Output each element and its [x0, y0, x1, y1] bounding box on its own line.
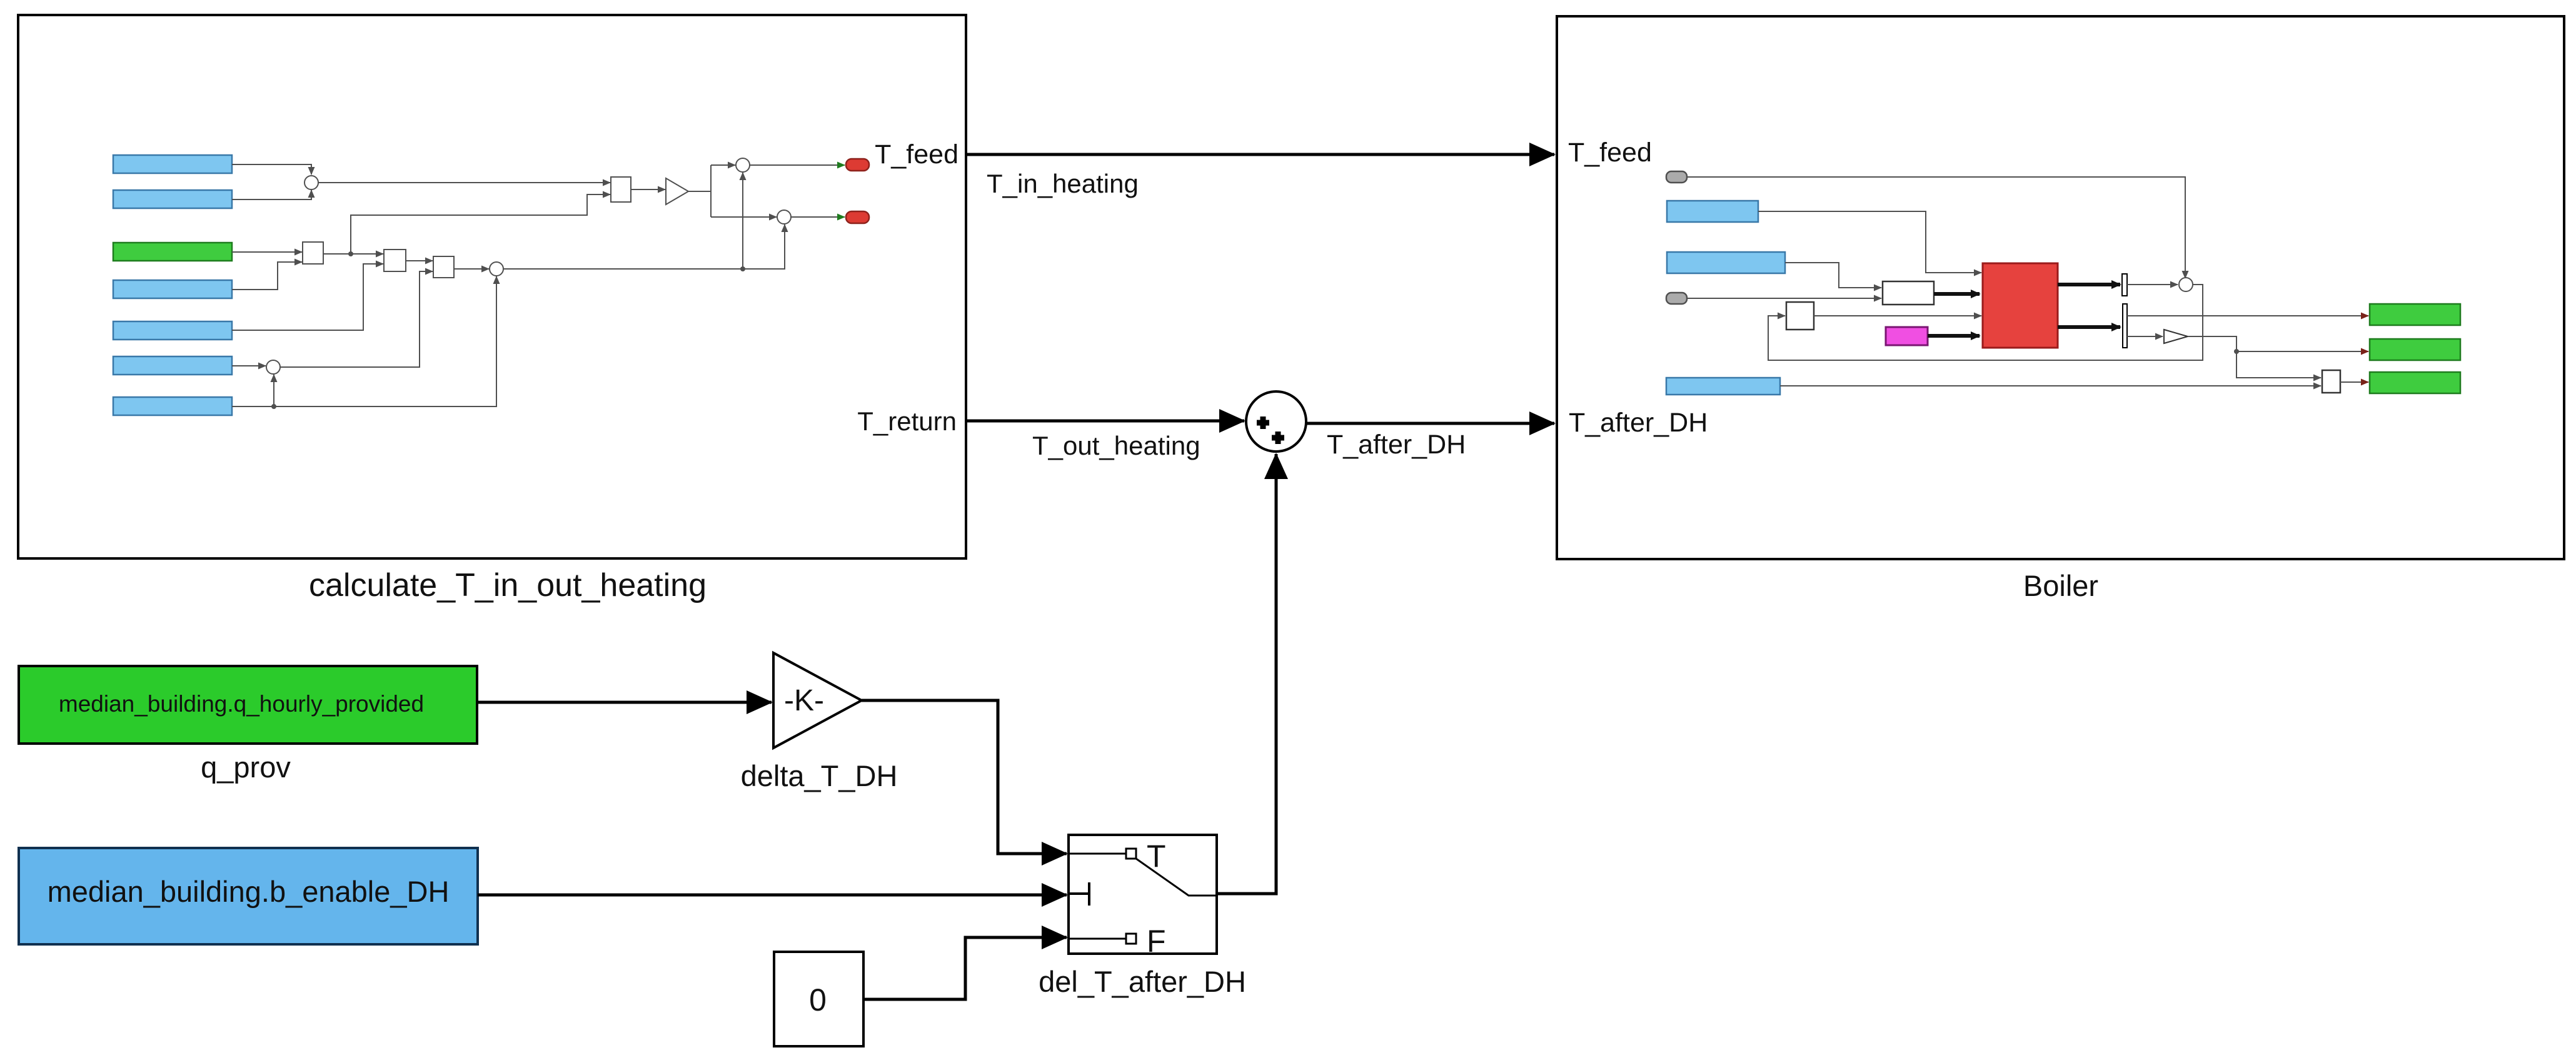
subsystem Boiler — [1557, 16, 2564, 559]
wire box1 to box2 — [323, 253, 383, 255]
svg-text:del_T_after_DH: del_T_after_DH — [1039, 965, 1246, 998]
svg-text:median_building.b_enable_DH: median_building.b_enable_DH — [48, 875, 450, 908]
wire branch In7 to sum3 bottom — [273, 375, 274, 406]
wire vbar2 to green bar 1 — [2127, 315, 2368, 316]
wire In6 to sum3 — [232, 365, 266, 366]
wire barC to box5 bottom input — [1780, 385, 2321, 386]
gain triangle 2 — [2164, 330, 2188, 343]
switch lever — [1136, 859, 1217, 896]
wire sum4 to outport pill1 — [750, 164, 845, 166]
inport bar In3 (green) — [113, 243, 232, 261]
wire feedback sum6 to W2 — [1768, 285, 2203, 360]
wire In3 to box1 — [232, 251, 302, 253]
white box 5 — [2322, 370, 2340, 393]
inport block median_building.b_enable_DH — [19, 848, 478, 944]
svg-text:delta_T_DH: delta_T_DH — [741, 759, 898, 792]
wire constant to switch input3 — [863, 937, 1067, 999]
wire W2 to red block input3 — [1814, 315, 1981, 316]
sum block Add — [1246, 391, 1306, 452]
sum circle 4 — [736, 158, 750, 172]
svg-text:Boiler: Boiler — [2023, 569, 2098, 602]
wire sum2 to sum4 bottom — [503, 173, 743, 269]
white box W1 — [1883, 281, 1934, 305]
wire box4 to gain — [631, 189, 665, 190]
inport bar In6 — [113, 356, 232, 375]
switch del_T_after_DH — [1069, 835, 1217, 954]
switch inner square F — [1126, 934, 1136, 944]
constant 0 — [774, 952, 863, 1046]
vertical bar 2 — [2123, 304, 2127, 348]
sum circle 1 — [304, 176, 318, 189]
inport bar In4 — [113, 280, 232, 298]
svg-text:T_after_DH: T_after_DH — [1569, 408, 1708, 438]
wire b_enable_DH to switch control — [478, 894, 1067, 897]
wire barB to W1 input1 — [1785, 263, 1881, 288]
red block (heat exchanger) — [1983, 263, 2058, 348]
wire to sum4 left — [711, 164, 735, 166]
wire In5 to box2 — [232, 264, 383, 330]
wire gain to switch input1 — [862, 700, 1067, 854]
sum circle 3 — [266, 360, 280, 374]
wire In1 to sum1 — [232, 164, 311, 174]
gain triangle mini — [666, 178, 688, 204]
svg-text:F: F — [1147, 924, 1166, 959]
wire q_prov to gain delta_T_DH — [477, 701, 772, 704]
wire barA to red block input1 — [1758, 211, 1981, 273]
wire box3 to sum2 — [454, 268, 489, 270]
box4 divide — [611, 177, 631, 202]
junction dot — [740, 266, 745, 271]
svg-text:0: 0 — [809, 982, 827, 1017]
gain delta_T_DH — [773, 653, 862, 748]
wire sum1 to box4 — [318, 182, 610, 183]
wire to sum5 left — [711, 216, 777, 218]
vertical bar 1 — [2122, 274, 2127, 296]
inport bar A (blue) — [1667, 201, 1758, 222]
wire red out1 to vbar1 (thick) — [2058, 283, 2120, 286]
sum circle 6 — [2179, 278, 2193, 291]
junction dot — [271, 404, 276, 409]
switch inner stub T input — [1069, 853, 1126, 855]
wire vbar1 to sum6 — [2127, 284, 2178, 285]
inport bar In1 — [113, 155, 232, 173]
box1 product — [303, 242, 323, 264]
wire T_in_heating — [966, 153, 1554, 156]
inport bar In2 — [113, 190, 232, 208]
svg-text:T_return: T_return — [857, 406, 957, 436]
inport block q_prov (median_building.q_hourly_provided) — [19, 666, 477, 744]
wire red out2 to vbar2 (thick) — [2058, 325, 2120, 329]
wire gain to sums — [688, 165, 711, 217]
svg-text:calculate_T_in_out_heating: calculate_T_in_out_heating — [309, 567, 707, 603]
switch inner stub control — [1069, 882, 1089, 906]
outport green bar 1 — [2370, 304, 2460, 325]
wire W1 to red block (thick) — [1934, 292, 1980, 296]
svg-text:T_in_heating: T_in_heating — [987, 169, 1139, 198]
sum sign plus 1 — [1257, 416, 1269, 429]
wire vbar2 to gain2 — [2127, 336, 2163, 337]
wire branch to green bar 2 — [2236, 351, 2368, 352]
wire gain2 to box5 top input — [2188, 336, 2321, 378]
wire switch to sum bottom — [1217, 454, 1276, 894]
wire In2 to sum1 — [232, 190, 311, 199]
wire box5 to green bar 3 — [2340, 381, 2368, 383]
inport bar C (blue) — [1666, 378, 1780, 395]
svg-text:median_building.q_hourly_provi: median_building.q_hourly_provided — [59, 691, 424, 717]
inport pill gray 1 — [1666, 171, 1687, 183]
switch inner square T — [1126, 849, 1136, 859]
sum sign plus 2 — [1272, 432, 1284, 444]
wire sum3 to box3 — [280, 271, 433, 367]
outport green bar 3 — [2370, 372, 2460, 393]
subsystem calculate_T_in_out_heating — [18, 15, 966, 558]
inport pill gray 2 — [1666, 293, 1687, 304]
outport pill 1 (red) — [846, 159, 869, 171]
box3 product — [433, 256, 454, 278]
svg-text:T_feed: T_feed — [875, 139, 958, 169]
svg-text:T_out_heating: T_out_heating — [1032, 431, 1200, 460]
wire branch box1 to box4 lower input — [351, 194, 610, 254]
inport bar In5 — [113, 321, 232, 340]
svg-text:q_prov: q_prov — [201, 750, 291, 784]
switch inner stub F input — [1069, 938, 1126, 940]
wire In7 to sum2 bottom — [232, 276, 496, 406]
wire T_out_heating — [966, 420, 1244, 423]
svg-text:T_feed: T_feed — [1568, 138, 1652, 168]
box2 product — [384, 250, 406, 271]
outport green bar 2 — [2370, 339, 2460, 360]
wire box2 to box3 — [406, 260, 433, 261]
wire pill1 to sum6 top — [1687, 177, 2185, 278]
svg-text:T_after_DH: T_after_DH — [1327, 430, 1466, 460]
white box W2 — [1786, 302, 1814, 330]
junction dot — [2234, 349, 2239, 354]
wire pill2 to W1 input2 — [1687, 298, 1881, 299]
wire magenta to red block (thick) — [1928, 334, 1980, 338]
inport bar In7 — [113, 397, 232, 415]
wire branch to sum5 bottom — [743, 225, 785, 269]
wire In4 to box1 — [232, 262, 302, 290]
sum circle 2 — [490, 262, 503, 276]
wire T_after_DH — [1307, 422, 1554, 425]
junction dot — [348, 251, 353, 256]
magenta block — [1886, 327, 1928, 345]
inport bar B (blue) — [1667, 252, 1785, 273]
outport pill 2 (red) — [846, 211, 869, 223]
wire sum5 to outport pill2 — [791, 216, 845, 218]
svg-text:-K-: -K- — [784, 684, 824, 717]
sum circle 5 — [777, 210, 791, 224]
